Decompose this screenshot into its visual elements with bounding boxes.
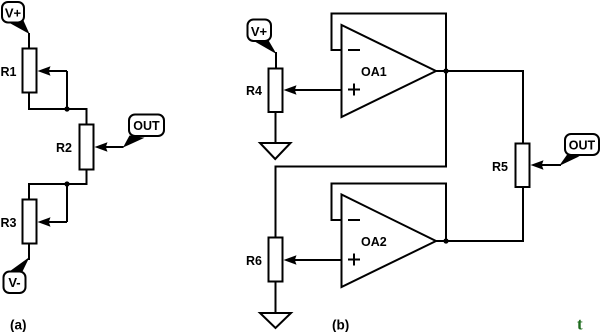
junction dot (R1 wiper / R1 bottom node) bbox=[64, 106, 69, 111]
wiper arrow of R3 bbox=[38, 217, 68, 226]
wiper arrow of R1 bbox=[38, 66, 68, 75]
svg-text:R4: R4 bbox=[246, 84, 262, 98]
wiper arrow of R5 bbox=[531, 160, 562, 169]
ground (under R4) bbox=[260, 143, 291, 159]
wire OA2 output bbox=[436, 240, 446, 242]
svg-text:V+: V+ bbox=[251, 24, 268, 39]
wire R6 bottom to ground bbox=[275, 282, 277, 315]
svg-text:(b): (b) bbox=[332, 318, 349, 332]
svg-text:OA1: OA1 bbox=[361, 65, 387, 79]
wire R2 bottom to R3 top bbox=[29, 170, 87, 201]
svg-text:(a): (a) bbox=[10, 318, 27, 332]
svg-text:R5: R5 bbox=[492, 160, 508, 174]
svg-text:t: t bbox=[577, 315, 583, 332]
junction dot OA1 output node bbox=[443, 68, 448, 73]
ground (under R6) bbox=[260, 313, 291, 328]
svg-text:R1: R1 bbox=[1, 65, 17, 79]
node OUT (flag, circuit b) bbox=[559, 134, 599, 166]
wire R3 wiper up to junction bbox=[66, 184, 68, 222]
resistor R3 (potentiometer body) bbox=[23, 200, 37, 244]
wire V+ to R1 bbox=[28, 33, 30, 49]
svg-text:R3: R3 bbox=[1, 216, 17, 230]
svg-text:OA2: OA2 bbox=[361, 235, 387, 249]
wire OA1 feedback (inverting input to output) bbox=[332, 14, 447, 72]
svg-text:V+: V+ bbox=[5, 5, 22, 20]
wiper arrow of R6 bbox=[284, 255, 342, 264]
resistor R4 (potentiometer body) bbox=[269, 69, 283, 113]
wire OA1 output to R5 top bbox=[446, 71, 523, 144]
junction dot (R3 wiper / R3 top node) bbox=[64, 181, 69, 186]
wire OA1 output down to R6 top bbox=[276, 71, 447, 238]
svg-text:R2: R2 bbox=[56, 141, 72, 155]
wire OA1 output bbox=[436, 70, 446, 72]
node V+ (flag, circuit b) bbox=[248, 20, 277, 55]
junction dot OA2 output node bbox=[443, 238, 448, 243]
wire V+ to R4 bbox=[275, 52, 277, 69]
wiper arrow of R4 bbox=[284, 85, 342, 94]
wire OA2 output to R5 bottom bbox=[446, 187, 523, 241]
node OUT (flag, circuit a) bbox=[123, 115, 164, 148]
resistor R1 (potentiometer body) bbox=[23, 49, 37, 93]
node V- (flag, circuit a) bbox=[4, 257, 30, 293]
node V+ (flag, circuit a) bbox=[2, 2, 30, 34]
resistor R2 (potentiometer body) bbox=[80, 125, 94, 170]
resistor R6 (potentiometer body) bbox=[269, 238, 283, 282]
op-amp OA2 bbox=[342, 195, 437, 288]
wire R1 wiper down to junction bbox=[66, 71, 68, 109]
pin + (non-inverting input) OA1 bbox=[348, 89, 360, 91]
pin - (inverting input) OA2 bbox=[348, 219, 360, 221]
pin + (non-inverting input) OA2 bbox=[348, 259, 360, 261]
op-amp OA1 bbox=[342, 25, 437, 117]
wire R3 bottom to V- bbox=[28, 244, 30, 261]
resistor R5 (potentiometer body) bbox=[516, 144, 530, 188]
svg-text:OUT: OUT bbox=[133, 119, 160, 133]
pin - (inverting input) OA1 bbox=[348, 49, 360, 51]
wire OA2 feedback (inverting input to output) bbox=[332, 184, 447, 242]
svg-text:R6: R6 bbox=[246, 254, 262, 268]
wire R4 bottom to ground bbox=[275, 112, 277, 144]
wiper arrow of R2 bbox=[95, 142, 124, 151]
svg-text:OUT: OUT bbox=[569, 139, 596, 153]
svg-text:V-: V- bbox=[8, 275, 20, 290]
wire R1 bottom to R2 top bbox=[29, 93, 87, 126]
